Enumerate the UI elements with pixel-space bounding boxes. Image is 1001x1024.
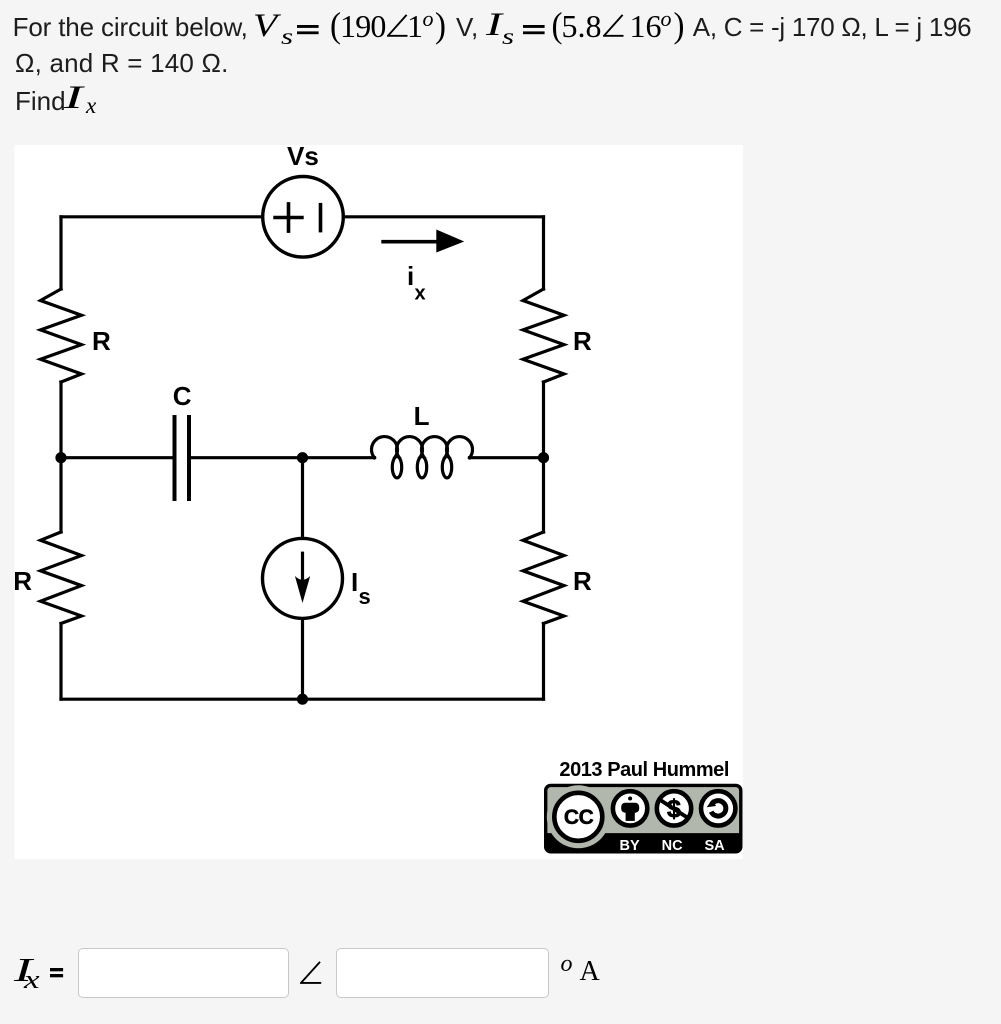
svg-text:x: x: [415, 283, 426, 305]
voltage source Vs circle: [263, 177, 344, 258]
Is arrowhead: [295, 576, 310, 603]
badge background: [546, 785, 741, 851]
wire middle-right: [470, 456, 544, 459]
wire right vertical lower: [542, 624, 545, 700]
input box 1: [78, 948, 289, 999]
svg-text:2013 Paul Hummel: 2013 Paul Hummel: [559, 759, 729, 781]
svg-text:C: C: [173, 381, 192, 411]
header line 3: [15, 88, 66, 114]
BY person head: [628, 797, 632, 801]
resistor R top-left: [41, 289, 82, 382]
ix arrowhead: [436, 230, 464, 253]
svg-text:i: i: [407, 261, 414, 291]
CC logo circle: [554, 793, 602, 841]
wire bottom: [61, 698, 544, 701]
Vs plus sign: [275, 204, 302, 231]
Is branch wire lower: [301, 618, 304, 699]
SA arrow arc: [711, 801, 726, 816]
inductor L coil: [371, 437, 472, 478]
resistor R bottom-right: [523, 532, 564, 624]
capacitor C plate left: [173, 417, 177, 499]
wire right vertical upper: [542, 217, 545, 289]
Vs bar: [319, 205, 323, 231]
wire left vertical lower: [59, 624, 62, 700]
resistor R top-right: [523, 289, 564, 382]
input box 2: [336, 948, 548, 999]
header line 1: [13, 14, 248, 40]
NC slash: [660, 800, 690, 820]
svg-text:R: R: [573, 566, 592, 596]
capacitor C plate right: [187, 417, 191, 499]
white figure panel: [15, 145, 744, 859]
angle symbol: [300, 961, 322, 984]
svg-text:CC: CC: [564, 806, 594, 829]
Is branch wire upper: [301, 458, 304, 539]
SA icon circle: [701, 791, 735, 825]
svg-text:NC: NC: [662, 838, 683, 854]
NC icon circle: [657, 791, 691, 825]
BY NC SA labels: [620, 838, 726, 854]
svg-text:BY: BY: [620, 838, 640, 854]
header line 2: [15, 50, 229, 76]
wire right vertical middle: [542, 382, 545, 532]
wire left vertical upper: [59, 217, 62, 289]
Is arrow shaft: [301, 553, 304, 585]
svg-text:R: R: [92, 326, 111, 356]
unit A: [580, 958, 600, 986]
svg-text:s: s: [359, 584, 371, 609]
junction node dot middle-right: [538, 452, 549, 463]
svg-text:Vs: Vs: [287, 141, 319, 171]
svg-text:R: R: [573, 326, 592, 356]
wire top-left: [61, 215, 263, 218]
BY person body: [621, 803, 639, 813]
wire middle-center: [191, 456, 375, 459]
resistor R bottom-left: [41, 532, 82, 624]
svg-text:SA: SA: [705, 838, 726, 854]
wire top-right: [344, 215, 544, 218]
badge black strip: [546, 833, 740, 852]
wire middle-left: [61, 456, 173, 459]
junction node dot middle-center: [297, 452, 308, 463]
CC license badge: [546, 785, 741, 854]
BY icon circle: [613, 791, 647, 825]
svg-text:L: L: [414, 401, 430, 431]
junction node dot middle-left: [55, 452, 66, 463]
CC logo halo: [547, 785, 610, 848]
junction node dot bottom: [297, 694, 308, 705]
current source Is circle: [263, 538, 343, 618]
SA arrowhead: [707, 799, 716, 807]
wire left vertical middle: [59, 382, 62, 532]
ix arrow shaft: [381, 240, 440, 244]
degree o: [561, 952, 573, 976]
svg-text:R: R: [13, 566, 32, 596]
answer row: [14, 954, 32, 988]
svg-text:I: I: [351, 567, 358, 597]
